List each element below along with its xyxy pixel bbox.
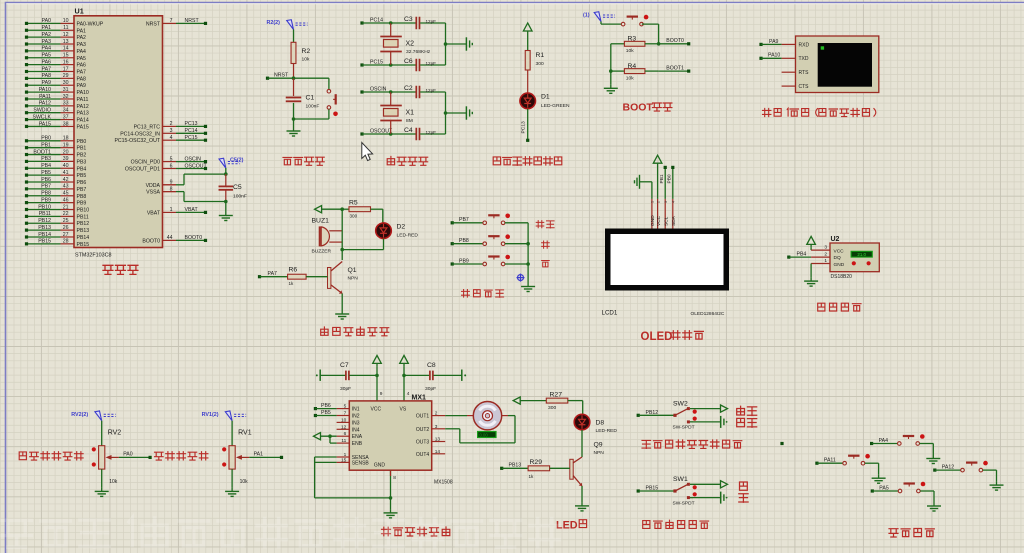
svg-text:11: 11 — [63, 25, 68, 31]
transistor Q9 NPN — [570, 430, 604, 503]
svg-text:PA7: PA7 — [77, 69, 87, 75]
OLED display LCD1 — [602, 199, 730, 317]
svg-text:C8: C8 — [427, 362, 436, 369]
svg-text:1k: 1k — [289, 281, 295, 286]
svg-text:RV1: RV1 — [238, 430, 252, 437]
wire net BOOT0 (pin 44) — [167, 235, 207, 242]
capacitor C5 100nF — [219, 168, 247, 212]
svg-text:C3: C3 — [404, 16, 413, 23]
svg-text:PB0: PB0 — [666, 174, 672, 183]
svg-text:PB1: PB1 — [77, 146, 87, 152]
svg-text:PB3: PB3 — [77, 159, 87, 165]
wire net PA11 (pin 32) — [25, 94, 69, 101]
crystal X1 8M with C2/C4 — [360, 85, 472, 140]
svg-text:R2(2): R2(2) — [267, 20, 281, 26]
svg-text:100nF: 100nF — [306, 104, 320, 110]
svg-text:PA3: PA3 — [42, 39, 52, 45]
svg-text:BOOT0: BOOT0 — [185, 235, 203, 241]
svg-text:D8: D8 — [596, 420, 605, 427]
section label BOOT电路 — [623, 102, 672, 114]
resistor R5 300 — [340, 200, 382, 219]
svg-text:7: 7 — [170, 18, 173, 24]
svg-text:PB9: PB9 — [41, 197, 51, 203]
wire net PA15 (pin 38) — [25, 121, 69, 128]
svg-text:PA11: PA11 — [77, 97, 89, 103]
svg-text:PB12: PB12 — [646, 410, 659, 416]
svg-text:R1: R1 — [536, 52, 545, 59]
capacitor C8 30pF — [404, 362, 466, 392]
svg-text:30: 30 — [63, 80, 69, 86]
svg-text:21: 21 — [63, 204, 69, 210]
svg-text:PA1: PA1 — [254, 452, 264, 458]
net BOOT0 — [659, 38, 691, 45]
push button (PB9) — [451, 255, 528, 266]
svg-text:PA4: PA4 — [42, 46, 52, 52]
svg-text:PB4: PB4 — [77, 166, 87, 172]
power (R27) — [513, 397, 546, 404]
origin marker — [517, 274, 525, 282]
svg-text:GND: GND — [374, 463, 386, 469]
ground (U2) — [804, 264, 818, 287]
svg-text:20: 20 — [63, 149, 69, 155]
svg-text:6: 6 — [170, 163, 173, 169]
svg-text:10k: 10k — [302, 57, 310, 63]
switch SW2 SW-SPDT — [637, 400, 728, 430]
svg-text:46: 46 — [63, 197, 69, 203]
power (VCC MX1) — [373, 355, 383, 401]
section label 程序运行指示灯 — [493, 157, 562, 166]
section label 独立按键 — [462, 290, 504, 298]
svg-text:PA6: PA6 — [42, 59, 52, 65]
svg-text:LED-RED: LED-RED — [596, 428, 618, 434]
svg-text:BOOT: BOOT — [623, 102, 654, 114]
svg-text:37: 37 — [63, 114, 69, 120]
section label 可燃气值调节 — [19, 452, 83, 460]
ground (Q9) — [575, 502, 589, 511]
svg-text:PC15: PC15 — [370, 60, 383, 66]
svg-text:C1: C1 — [306, 95, 315, 102]
svg-text:OSCOUT: OSCOUT — [185, 163, 208, 169]
svg-text:300: 300 — [536, 61, 544, 67]
capacitor C7 30pF — [316, 362, 377, 392]
label 暗 — [740, 482, 748, 490]
svg-text:16: 16 — [63, 59, 69, 65]
svg-text:IN3: IN3 — [352, 420, 360, 426]
ground (reset) — [287, 119, 301, 136]
DC motor — [445, 402, 515, 443]
svg-text:3: 3 — [824, 245, 827, 251]
svg-text:41: 41 — [63, 170, 69, 176]
wire net VBAT (pin 1) — [170, 207, 207, 214]
svg-text:DQ: DQ — [834, 255, 841, 261]
svg-text:PC13_RTC: PC13_RTC — [134, 124, 161, 130]
svg-text:PA12: PA12 — [39, 101, 51, 107]
svg-text:PA1: PA1 — [42, 25, 52, 31]
svg-text:18: 18 — [63, 136, 69, 142]
svg-text:SCL: SCL — [663, 216, 669, 226]
resistor R1 300 — [525, 35, 544, 93]
svg-text:PB9: PB9 — [459, 258, 469, 264]
wire net PB6 (IN1) — [314, 403, 337, 410]
svg-text:TXD: TXD — [799, 56, 809, 62]
wire net PC15 (pin 4) — [170, 135, 207, 142]
svg-text:10k: 10k — [240, 479, 249, 485]
svg-text:PB7: PB7 — [459, 217, 469, 223]
svg-text:R29: R29 — [530, 459, 543, 466]
svg-text:PB10: PB10 — [77, 208, 90, 214]
wire net PB5 (IN2) — [314, 410, 337, 417]
wire net PA6 (pin 16) — [25, 59, 69, 66]
wire net PA4 (pin 14) — [25, 46, 69, 53]
probe R2(2) — [267, 20, 308, 30]
wire net PA10 — [759, 53, 795, 60]
svg-text:PB4: PB4 — [797, 251, 807, 257]
svg-text:PA11: PA11 — [824, 458, 836, 464]
push button (PA12) — [933, 461, 1003, 490]
section label 声光报警电路 — [321, 327, 389, 336]
svg-text:8M: 8M — [406, 118, 413, 124]
buzzer BUZ1 — [312, 218, 343, 255]
svg-text:PA9: PA9 — [77, 83, 87, 89]
svg-text:STM32F103C8: STM32F103C8 — [75, 253, 112, 259]
wire net PC13 (D1) — [521, 109, 530, 142]
svg-text:LED-GREEN: LED-GREEN — [541, 103, 570, 109]
svg-text:OUT3: OUT3 — [416, 440, 430, 446]
svg-text:PC15-OSC32_OUT: PC15-OSC32_OUT — [114, 138, 160, 144]
section label OLED显示屏 — [641, 331, 704, 343]
svg-text:SW1: SW1 — [673, 476, 688, 483]
svg-text:PA7: PA7 — [42, 66, 52, 72]
svg-text:C4: C4 — [404, 127, 413, 134]
svg-text:NRST: NRST — [274, 73, 289, 79]
svg-text:PA10: PA10 — [77, 90, 89, 96]
svg-text:PA14: PA14 — [77, 118, 89, 124]
svg-text:PA0: PA0 — [42, 18, 52, 24]
svg-text:BOOT0: BOOT0 — [142, 238, 160, 244]
svg-text:PA1: PA1 — [77, 28, 87, 34]
svg-text:OUT2: OUT2 — [416, 427, 430, 433]
svg-text:1k: 1k — [529, 474, 535, 479]
svg-text:5: 5 — [170, 156, 173, 162]
svg-text:IN1: IN1 — [352, 407, 360, 413]
svg-text:BOOT1: BOOT1 — [666, 66, 684, 72]
probe (1) — [583, 12, 615, 22]
svg-text:C7: C7 — [340, 362, 349, 369]
wire (SENSA/SENSB) — [315, 457, 391, 498]
svg-text:OSCOUT_PD1: OSCOUT_PD1 — [125, 167, 160, 173]
svg-text:PA12: PA12 — [942, 465, 954, 471]
svg-text:PA2: PA2 — [42, 32, 52, 38]
svg-text:GND: GND — [650, 215, 656, 226]
svg-text:OLED12864I2C: OLED12864I2C — [691, 311, 725, 317]
svg-text:PB13: PB13 — [38, 225, 51, 231]
svg-text:100nF: 100nF — [233, 194, 247, 200]
net PB1 (SCL) — [659, 166, 667, 199]
power (U2 VCC) — [807, 236, 816, 250]
wire net PA2 (pin 12) — [25, 32, 69, 39]
svg-text:PB15: PB15 — [77, 242, 90, 248]
svg-text:OLED: OLED — [641, 331, 673, 343]
svg-text:22: 22 — [63, 211, 69, 217]
svg-text:1: 1 — [170, 207, 173, 213]
wire net PC13 (pin 2) — [170, 121, 207, 128]
svg-text:4: 4 — [170, 135, 173, 141]
section label 晶振电路 — [387, 157, 428, 166]
svg-text:VBAT: VBAT — [185, 207, 199, 213]
svg-text:PB6: PB6 — [77, 180, 87, 186]
svg-text:12pF: 12pF — [426, 19, 437, 24]
wire net PB4 — [787, 251, 830, 258]
svg-text:RTS: RTS — [799, 70, 810, 76]
svg-text:R2: R2 — [302, 48, 311, 55]
svg-text:VS: VS — [400, 407, 407, 413]
svg-text:PB3: PB3 — [41, 156, 51, 162]
svg-text:PA12: PA12 — [77, 104, 89, 110]
section label 串口1窗口（模拟手机端） — [763, 108, 876, 116]
wire net SWDIO (pin 34) — [25, 108, 69, 115]
ground (keys) — [521, 283, 535, 292]
svg-text:PC13: PC13 — [521, 121, 527, 134]
svg-text:NPN: NPN — [348, 276, 359, 282]
wire net PB5 (pin 41) — [25, 170, 69, 177]
svg-text:U1: U1 — [75, 7, 84, 16]
wire net OSCIN (pin 5) — [170, 156, 207, 163]
resistor R4 10k — [611, 63, 659, 82]
svg-text:PA4: PA4 — [879, 438, 889, 444]
svg-text:SWCLK: SWCLK — [33, 114, 52, 120]
svg-text:PB2: PB2 — [77, 153, 87, 159]
virtual terminal (serial window) — [782, 36, 879, 93]
svg-text:VCC: VCC — [371, 407, 382, 413]
svg-text:ENB: ENB — [352, 441, 363, 447]
svg-text:300: 300 — [548, 405, 556, 411]
wire VDDA pin 9 — [163, 174, 226, 186]
svg-text:IN2: IN2 — [352, 414, 360, 420]
svg-text:X2: X2 — [406, 41, 415, 48]
svg-text:SENSB: SENSB — [352, 460, 370, 466]
svg-text:10k: 10k — [626, 75, 634, 81]
wire net OSCOUT (pin 6) — [170, 163, 208, 170]
svg-text:PB1: PB1 — [659, 174, 665, 183]
svg-text:2: 2 — [170, 121, 173, 127]
resistor R6 1k — [258, 266, 328, 286]
svg-text:PB8: PB8 — [459, 238, 469, 244]
wire net PB0 (pin 18) — [25, 136, 69, 143]
svg-text:10k: 10k — [109, 479, 118, 485]
svg-text:32.768KHz: 32.768KHz — [406, 49, 431, 55]
svg-text:0.00: 0.00 — [480, 433, 489, 438]
svg-text:PA9: PA9 — [769, 39, 779, 45]
wire net PB10 (pin 21) — [25, 204, 69, 211]
svg-text:C5(2): C5(2) — [230, 158, 244, 164]
svg-text:PA10: PA10 — [39, 87, 51, 93]
wire net PB6 (pin 42) — [25, 177, 69, 184]
svg-text:LCD1: LCD1 — [602, 310, 618, 317]
svg-text:RV2(2): RV2(2) — [71, 412, 88, 418]
svg-text:C2: C2 — [404, 85, 413, 92]
svg-text:1: 1 — [651, 201, 655, 203]
IC MX1 MX1508 — [337, 395, 453, 486]
svg-text:OSCIN_PD0: OSCIN_PD0 — [131, 160, 161, 166]
svg-text:PA7: PA7 — [268, 271, 278, 277]
push button (PB7) — [451, 214, 528, 225]
push button (PB8) — [451, 234, 528, 245]
wire (BOOT pulldown) — [609, 44, 613, 85]
svg-text:PA3: PA3 — [77, 42, 87, 48]
svg-text:PB15: PB15 — [38, 239, 51, 245]
temp sensor U2 DS18B20 — [811, 236, 879, 280]
svg-text:PB7: PB7 — [41, 184, 51, 190]
svg-text:VDDA: VDDA — [146, 183, 161, 189]
IC U1 STM32F103C8 — [61, 7, 177, 259]
watermark — [2, 518, 559, 547]
svg-text:10k: 10k — [626, 48, 634, 54]
wire (buzzer bus) — [340, 209, 344, 251]
svg-text:PB0: PB0 — [41, 136, 51, 142]
svg-text:28: 28 — [63, 239, 69, 245]
transistor Q1 NPN — [328, 250, 359, 311]
section label 直流电机控制 — [382, 527, 450, 536]
svg-text:17: 17 — [63, 66, 69, 72]
crystal X2 32.768KHz with C3/C6 — [360, 16, 472, 71]
section label 复位电路 — [283, 157, 324, 165]
power (R5) — [315, 206, 343, 213]
svg-text:PB13: PB13 — [77, 228, 90, 234]
svg-text:PB11: PB11 — [77, 214, 89, 220]
svg-text:X1: X1 — [406, 110, 415, 117]
svg-text:PB10: PB10 — [38, 204, 51, 210]
wire net PB4 (pin 40) — [25, 163, 69, 170]
svg-text:8: 8 — [170, 186, 173, 192]
svg-text:PB6: PB6 — [321, 403, 331, 409]
push button (reset) — [292, 78, 338, 121]
push button (BOOT) — [601, 15, 659, 44]
svg-text:R5: R5 — [349, 200, 358, 207]
svg-text:MX1: MX1 — [412, 395, 427, 402]
svg-text:PA5: PA5 — [77, 56, 87, 62]
svg-text:4: 4 — [407, 391, 410, 397]
section label 手势模块 — [889, 529, 934, 538]
wire net PB14 (pin 27) — [25, 232, 69, 239]
wire net PA3 (pin 13) — [25, 39, 69, 46]
resistor R2 10k — [291, 30, 310, 79]
svg-text:25: 25 — [63, 218, 69, 224]
svg-text:38: 38 — [63, 121, 69, 127]
svg-text:9: 9 — [380, 391, 383, 397]
svg-text:34: 34 — [63, 108, 69, 114]
svg-text:SWDIO: SWDIO — [33, 108, 51, 114]
svg-text:PA4: PA4 — [77, 49, 87, 55]
svg-text:43: 43 — [63, 184, 69, 190]
svg-text:D1: D1 — [541, 94, 550, 101]
LED D2 LED-RED — [342, 209, 418, 249]
svg-text:13: 13 — [63, 39, 69, 45]
wire net SWCLK (pin 37) — [25, 114, 69, 121]
svg-text:15: 15 — [63, 53, 69, 59]
svg-text:PB7: PB7 — [77, 187, 87, 193]
svg-text:3: 3 — [170, 128, 173, 134]
svg-text:BOOT0: BOOT0 — [666, 38, 684, 44]
svg-text:RV1(2): RV1(2) — [202, 412, 219, 418]
net NRST — [266, 73, 295, 80]
svg-text:PA2: PA2 — [77, 35, 87, 41]
svg-text:R3: R3 — [628, 36, 637, 43]
svg-text:21.0: 21.0 — [857, 252, 866, 257]
svg-text:R6: R6 — [289, 266, 298, 273]
svg-text:PB9: PB9 — [77, 201, 87, 207]
svg-text:42: 42 — [63, 177, 69, 183]
svg-text:45: 45 — [63, 191, 69, 197]
svg-text:4: 4 — [672, 201, 676, 203]
svg-text:D2: D2 — [397, 224, 406, 231]
svg-text:GND: GND — [834, 262, 845, 268]
wire GND pin 8 — [389, 470, 397, 509]
svg-text:PB5: PB5 — [77, 173, 87, 179]
label 亮 — [739, 494, 748, 503]
wire net PA9 (pin 30) — [25, 80, 69, 87]
svg-text:PA11: PA11 — [39, 94, 51, 100]
svg-text:NPN: NPN — [594, 450, 605, 456]
svg-text:PA15: PA15 — [77, 124, 89, 130]
capacitor C1 100nF — [286, 78, 320, 119]
svg-text:U2: U2 — [831, 236, 840, 243]
svg-text:12pF: 12pF — [426, 61, 437, 66]
section label LED灯 — [556, 520, 587, 532]
wire net PA9 — [759, 39, 795, 46]
svg-text:PC13: PC13 — [185, 121, 198, 127]
svg-text:OSCIN: OSCIN — [370, 87, 387, 93]
svg-text:OUT1: OUT1 — [416, 414, 430, 420]
label 有人 — [737, 418, 757, 427]
svg-text:PA5: PA5 — [42, 53, 52, 59]
svg-text:R4: R4 — [628, 63, 637, 70]
svg-text:3: 3 — [664, 201, 668, 203]
svg-text:PB6: PB6 — [41, 177, 51, 183]
label 设置 — [536, 221, 554, 228]
svg-text:RV2: RV2 — [108, 430, 122, 437]
svg-text:PA10: PA10 — [768, 53, 780, 59]
svg-text:PC14: PC14 — [370, 18, 383, 24]
svg-text:44: 44 — [167, 235, 173, 241]
wire net PC14 (pin 3) — [170, 128, 207, 135]
svg-text:PB14: PB14 — [38, 232, 51, 238]
net BOOT1 — [659, 66, 691, 73]
ground (Q1) — [335, 311, 349, 320]
svg-text:12pF: 12pF — [426, 130, 437, 135]
svg-text:30pF: 30pF — [340, 386, 351, 392]
ground (BOOT) — [604, 85, 618, 94]
svg-text:PA8: PA8 — [42, 73, 52, 79]
svg-text:2: 2 — [656, 201, 660, 203]
svg-text:30pF: 30pF — [425, 386, 436, 392]
svg-text:10: 10 — [63, 18, 69, 24]
svg-text:C5: C5 — [233, 184, 242, 191]
svg-text:PA9: PA9 — [42, 80, 52, 86]
svg-text:BUZ1: BUZ1 — [312, 218, 330, 225]
wire net PA10 (pin 31) — [25, 87, 69, 94]
svg-text:PB11: PB11 — [39, 211, 51, 217]
svg-text:MX1508: MX1508 — [434, 480, 453, 486]
motor rpm display — [478, 432, 496, 438]
wire net PA8 (pin 29) — [25, 73, 69, 80]
svg-text:RXD: RXD — [799, 42, 810, 48]
net PB0 (SDA) — [666, 166, 674, 199]
switch SW1 SW-SPDT — [637, 476, 728, 506]
svg-text:(1): (1) — [583, 13, 590, 19]
svg-text:Q9: Q9 — [594, 442, 603, 449]
probe C5(2) — [219, 158, 244, 169]
svg-text:9: 9 — [170, 180, 173, 186]
